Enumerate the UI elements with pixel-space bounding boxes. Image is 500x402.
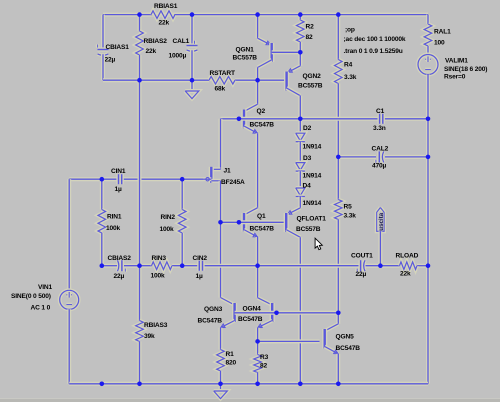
junction dot [336,311,341,316]
junction dot [255,12,260,17]
transistor QGN1 (PNP BC557B) [256,15,260,39]
svg-text:BC547B: BC547B [250,226,275,233]
svg-text:QGN5: QGN5 [336,334,355,341]
capacitor CBIAS2 [120,260,124,271]
svg-text:Q2: Q2 [257,108,266,115]
svg-text:82: 82 [306,34,314,41]
junction dot [100,263,105,268]
svg-text:QGN1: QGN1 [236,47,255,54]
junction dot [237,117,242,122]
svg-text:BC547B: BC547B [198,317,223,324]
svg-text:C1: C1 [376,108,385,115]
svg-text:22µ: 22µ [105,57,116,64]
svg-text:RBIAS3: RBIAS3 [144,322,168,329]
wire: RBIAS2-RBIAS3 vertical [138,80,142,266]
svg-text:22k: 22k [400,270,411,277]
svg-text:100k: 100k [106,225,121,232]
svg-text:CAL1: CAL1 [173,38,190,45]
transistor QGN2 (PNP BC557B) [298,52,302,66]
junction dot [137,382,142,387]
svg-text:SINE(18 6 200): SINE(18 6 200) [444,66,487,73]
wire: CBIAS1 branch bottom [101,54,105,80]
svg-text:1N914: 1N914 [303,143,322,150]
voltage source VIN1 [60,290,79,309]
svg-text:CIN1: CIN1 [111,168,126,175]
wire: QGN3/QGN4 base rail BB [235,311,339,315]
svg-text:D4: D4 [303,183,312,190]
capacitor CAL1 [190,15,194,46]
svg-text:RSTART: RSTART [210,70,235,77]
svg-text:22µ: 22µ [114,273,125,280]
svg-text:3.3n: 3.3n [373,125,386,132]
svg-text:100k: 100k [151,273,166,280]
svg-text:RIN3: RIN3 [152,255,167,262]
wire: bottom rail [69,382,428,386]
svg-text:1N914: 1N914 [303,200,322,207]
svg-text:D3: D3 [303,155,312,162]
junction dot [255,78,260,83]
junction dot [298,12,303,17]
voltage source VALIM1 [418,55,438,75]
resistor RBIAS1 [140,13,152,17]
capacitor CBIAS1 [98,47,109,51]
svg-text:RAL1: RAL1 [434,28,451,35]
svg-text:1µ: 1µ [115,186,123,193]
resistor RIN1 [100,179,104,209]
svg-text:22µ: 22µ [356,271,367,278]
svg-text:BC557B: BC557B [298,83,323,90]
wire: CBIAS1 branch top [101,15,105,48]
capacitor COUT1 [359,260,363,271]
svg-text:470µ: 470µ [372,162,387,169]
svg-text:RIN2: RIN2 [161,214,176,221]
resistor R2 [298,15,302,20]
junction dot [426,263,431,268]
junction dot [237,220,242,225]
svg-text:BC557B: BC557B [233,55,258,62]
svg-text:J1: J1 [224,168,232,175]
junction dot [100,382,105,387]
svg-text:68k: 68k [215,86,226,93]
transistor QGN4 (NPN BC547B, mirrored) [256,266,260,298]
junction dot [426,155,431,160]
resistor RAL1 [426,15,430,24]
svg-text:22k: 22k [159,19,170,26]
wire: QGN5 base rail CC [258,339,320,343]
diode D4 (1N914) [296,188,305,196]
svg-text:VIN1: VIN1 [38,284,53,291]
svg-text:3.3k: 3.3k [344,213,357,220]
svg-text:100: 100 [434,39,445,46]
svg-text:QGN3: QGN3 [204,306,223,313]
junction dot [378,263,383,268]
svg-text:R5: R5 [344,203,353,210]
svg-text:1000µ: 1000µ [169,53,187,60]
svg-text:RLOAD: RLOAD [396,252,419,259]
resistor RSTART [209,76,235,84]
resistor RBIAS2 [138,15,142,31]
svg-text:RBIAS2: RBIAS2 [144,38,168,45]
junction dot [255,339,260,344]
junction dot [180,263,185,268]
resistor R4 [336,15,340,60]
junction dot [218,220,223,225]
svg-text:RBIAS1: RBIAS1 [154,3,178,10]
svg-text:82: 82 [260,363,268,370]
resistor RBIAS3 [136,321,144,342]
svg-text:AC 1 0: AC 1 0 [31,305,51,312]
svg-text:CAL2: CAL2 [372,146,389,153]
svg-text:D2: D2 [303,125,312,132]
ground at bottom rail [219,384,223,391]
svg-text:CBIAS2: CBIAS2 [108,255,132,262]
wire: input rail X [69,177,117,181]
svg-text:820: 820 [226,360,237,367]
wire: CAL2 rail [338,155,376,159]
svg-text:3.3k: 3.3k [344,74,357,81]
resistor RLOAD [400,262,418,270]
junction dot [137,78,142,83]
svg-text:R4: R4 [344,62,353,69]
net flag uscita [377,208,384,232]
svg-text:uscita: uscita [378,212,385,230]
svg-text:QGN2: QGN2 [303,73,322,80]
resistor R5 [336,157,340,200]
svg-text:BC557B: BC557B [296,226,321,233]
junction dot [218,382,223,387]
junction dot [298,50,303,55]
ground below CAL1 [190,80,194,91]
svg-text:.tran 0 1 0.9 1.5259u: .tran 0 1 0.9 1.5259u [344,48,403,55]
svg-text:BC547B: BC547B [336,345,361,352]
wire: output rail Z [102,264,118,268]
junction dot [255,263,260,268]
svg-text:CIN2: CIN2 [193,255,208,262]
svg-text:;op: ;op [345,27,355,34]
junction dot [100,177,105,182]
svg-text:BC547B: BC547B [250,121,275,128]
junction dot [336,382,341,387]
transistor Q2 (NPN BC547B) [256,80,260,104]
svg-text:R2: R2 [306,23,315,30]
capacitor CIN1 [116,174,120,184]
transistor QGN5 (NPN BC547B) [336,313,340,324]
svg-text:RIN1: RIN1 [107,214,122,221]
svg-text:R1: R1 [226,351,235,358]
svg-text:Rser=0: Rser=0 [444,74,466,81]
wire: right bus down [426,119,430,157]
svg-text:100k: 100k [160,226,175,233]
svg-text:39k: 39k [144,333,155,340]
wire: uscita to output rail [378,231,382,265]
jfet J1 (BF245A) [219,119,223,170]
svg-text:;ac dec 100 1 10000k: ;ac dec 100 1 10000k [344,36,406,43]
wire: top supply rail [103,13,428,17]
diode D2 (1N914) [298,119,302,133]
mouse cursor [315,238,322,250]
junction dot [336,155,341,160]
svg-text:BF245A: BF245A [221,179,245,186]
wire: V rail (Q2 base to C1) [221,117,380,121]
svg-text:QFLOAT1: QFLOAT1 [297,215,327,222]
junction dot [255,382,260,387]
resistor RIN3 [152,262,173,270]
svg-text:22k: 22k [146,48,157,55]
junction dot [274,311,279,316]
diode D3 (1N914) [296,163,305,171]
svg-text:1N914: 1N914 [303,172,322,179]
svg-text:1µ: 1µ [196,273,204,280]
capacitor CAL2 [377,151,381,162]
svg-text:BC547B: BC547B [238,316,263,323]
junction dot [190,12,195,17]
svg-text:VALIM1: VALIM1 [445,58,468,65]
wire: VIN1 to bottom rail [67,309,71,384]
wire: second rail (VCC node) [103,78,209,82]
transistor QGN3 (NPN BC547B, mirrored) [221,298,235,306]
resistor R1 [219,348,223,352]
svg-text:COUT1: COUT1 [351,252,373,259]
junction dot [137,263,142,268]
resistor RIN2 [180,179,184,209]
capacitor CIN2 [197,261,201,271]
junction dot [137,12,142,17]
svg-text:SINE(0 0 500): SINE(0 0 500) [11,293,51,300]
svg-text:R3: R3 [260,354,269,361]
transistor Q1 (NPN BC547B) [244,208,258,215]
junction dot [180,177,185,182]
svg-text:Q1: Q1 [257,213,266,220]
transistor QFLOAT1 (PNP BC557B) [286,208,300,215]
svg-text:CBIAS1: CBIAS1 [106,44,130,51]
wire: base rail Y (Q1 & QFLOAT1) [221,220,287,224]
junction dot [190,78,195,83]
junction dot [298,117,303,122]
junction dot [298,382,303,387]
wire: VIN1 branch [67,179,71,290]
junction dot [336,12,341,17]
capacitor C1 [378,114,382,124]
resistor R3 [256,341,260,354]
junction dot [426,117,431,122]
